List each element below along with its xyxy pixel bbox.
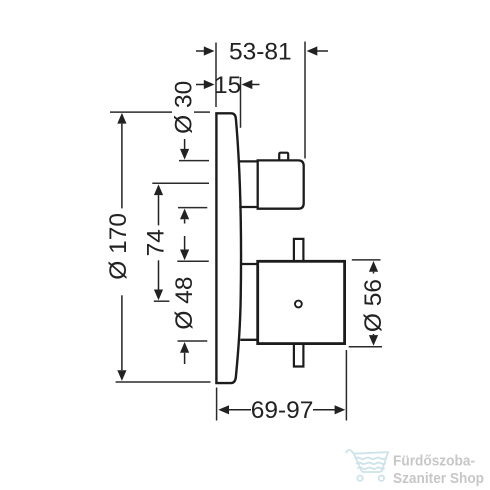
valve top tab — [294, 239, 304, 260]
knob adapter sleeve — [238, 160, 258, 162]
svg-text:Szaniter Shop: Szaniter Shop — [393, 470, 484, 487]
thermostat knob body — [258, 160, 304, 208]
svg-text:Ø 170: Ø 170 — [105, 213, 132, 280]
extension line E2 (knob top) — [179, 160, 209, 162]
watermark shopping cart logo — [346, 450, 388, 481]
extension line E9 (Ø56 top) — [352, 259, 381, 261]
svg-text:69-97: 69-97 — [251, 397, 314, 424]
dimension Ø48 — [184, 236, 186, 250]
svg-text:Ø 56: Ø 56 — [360, 279, 387, 332]
valve body (square box) — [258, 261, 345, 343]
escutcheon plate (side view) — [216, 113, 241, 383]
svg-text:Ø 30: Ø 30 — [171, 81, 198, 134]
extension line 69-97 right — [345, 350, 347, 421]
extension line E8 (plate bottom) — [116, 381, 211, 383]
dimension Ø56 — [369, 261, 378, 272]
dimension 69-97 — [218, 405, 229, 414]
connector flange between plate and valve body — [241, 263, 258, 265]
svg-text:53-81: 53-81 — [229, 39, 292, 66]
dimension 15 — [196, 84, 260, 86]
extension line 69-97 left — [216, 388, 218, 421]
svg-text:15: 15 — [214, 72, 241, 99]
valve center screw — [295, 301, 302, 308]
extension line E3 (knob centerline) — [152, 182, 209, 184]
dimension Ø170 — [117, 113, 126, 124]
svg-text:Ø 48: Ø 48 — [171, 276, 198, 329]
svg-text:74: 74 — [143, 229, 170, 256]
valve bottom tab — [294, 345, 304, 367]
extension line B (front of adapter, x=240.5) — [240, 77, 242, 128]
extension line A (wall plane, x=216) — [215, 43, 217, 108]
dimension 53-81 — [196, 50, 328, 52]
extension line E1 (plate top) — [110, 111, 172, 113]
extension line E4 (knob bottom) — [178, 207, 207, 209]
dimension 74 — [154, 184, 163, 195]
extension line E5 (Ø48 top) — [177, 260, 209, 262]
extension line E6 (74 bottom) — [154, 300, 170, 302]
extension line C (front of knob, x=305) — [304, 42, 306, 159]
svg-text:Fürdőszoba-: Fürdőszoba- — [393, 453, 475, 470]
knob top tab — [279, 153, 288, 160]
extension line E7 (Ø48 bottom) — [178, 340, 208, 342]
extension line E10 (Ø56 bottom) — [349, 346, 382, 348]
